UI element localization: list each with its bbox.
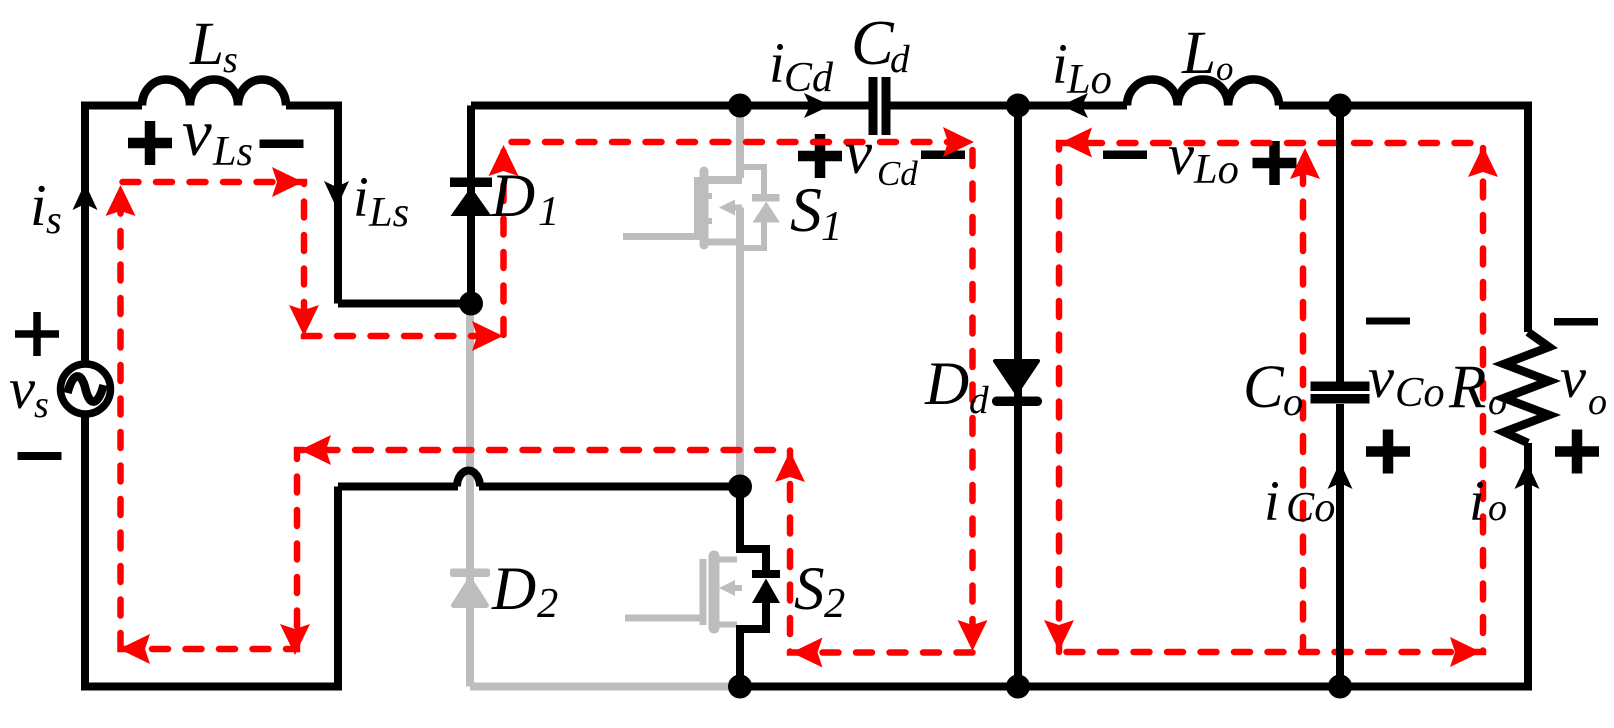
- node: S2 source junction: [728, 675, 752, 699]
- red arrowheads: [106, 127, 1499, 668]
- wire y486 left segment: [338, 483, 458, 491]
- svg-text:1: 1: [821, 203, 842, 250]
- arrow red left at iLo: [1061, 128, 1092, 158]
- arrow red left at y450: [300, 435, 331, 465]
- arrow iLo (left): [1061, 93, 1088, 118]
- svg-text:L: L: [1181, 19, 1216, 87]
- arrow red left at bottom left: [119, 634, 150, 664]
- plus vLo: [1253, 141, 1297, 185]
- svg-text:i: i: [1469, 470, 1485, 533]
- svg-text:d: d: [969, 379, 989, 422]
- source vs: [61, 364, 111, 414]
- diode D2 column wire: [470, 309, 740, 687]
- wire Ro to bottom: [740, 443, 1528, 687]
- svg-text:v: v: [845, 120, 873, 187]
- svg-text:i: i: [353, 166, 369, 229]
- svg-text:v: v: [1560, 345, 1587, 410]
- wire Ls to iLs corner: [286, 106, 338, 304]
- svg-text:D: D: [924, 350, 969, 418]
- svg-text:i: i: [1264, 470, 1280, 533]
- svg-text:C: C: [1243, 354, 1285, 421]
- wire: red loop right: [1059, 143, 1483, 652]
- inductor Lo: [1127, 79, 1279, 105]
- wire top right: [1279, 106, 1528, 333]
- svg-text:i: i: [1052, 33, 1068, 96]
- plus vCo: [1366, 430, 1410, 474]
- svg-text:s: s: [34, 384, 49, 426]
- arrow red down at x297: [280, 624, 310, 655]
- arrow red up at Co: [1290, 148, 1320, 179]
- wire y486 right segment: [479, 483, 740, 491]
- arrow iCo (up): [1328, 462, 1353, 489]
- svg-text:2: 2: [537, 580, 558, 627]
- svg-text:S: S: [794, 556, 825, 623]
- svg-text:o: o: [1488, 487, 1507, 529]
- svg-text:s: s: [223, 39, 238, 81]
- svg-text:o: o: [1488, 381, 1507, 423]
- wire: red branch Co: [1300, 168, 1307, 652]
- arrow red right at Cd: [943, 127, 974, 157]
- node: D1 anode junction: [459, 292, 483, 316]
- plus vCd: [798, 134, 842, 178]
- arrow io (up): [1515, 462, 1540, 489]
- minus vCd: [921, 151, 965, 160]
- diode Dd: [994, 361, 1040, 404]
- svg-text:1: 1: [538, 188, 559, 235]
- diode D2: [453, 571, 488, 606]
- arrow iCd (right): [804, 93, 831, 118]
- capacitor Co: [1311, 382, 1370, 404]
- svg-text:i: i: [769, 32, 785, 95]
- plus vo: [1555, 430, 1599, 474]
- svg-text:S: S: [790, 174, 822, 245]
- arrow red up at is: [106, 185, 136, 216]
- plus/minus signs: [15, 121, 1599, 474]
- plus vLs: [128, 121, 172, 165]
- wire node A horizontal: [338, 300, 471, 308]
- arrow red right at vLs end: [272, 167, 303, 197]
- svg-text:Cd: Cd: [877, 154, 918, 193]
- node: Dd bottom junction: [1006, 675, 1030, 699]
- svg-text:L: L: [189, 10, 224, 78]
- black current arrows: [73, 93, 1540, 489]
- svg-text:v: v: [182, 96, 212, 170]
- wire hop over gray: [457, 471, 480, 487]
- mosfet S1: [623, 105, 780, 484]
- svg-text:Ls: Ls: [212, 128, 253, 175]
- wire: red loop left: [121, 142, 973, 653]
- inductor Ls: [142, 80, 286, 106]
- svg-text:i: i: [30, 172, 47, 238]
- svg-text:o: o: [1283, 379, 1303, 424]
- wire top center: [471, 102, 874, 110]
- wire Co column overlay at red crossings: [1336, 125, 1344, 675]
- minus vLo: [1103, 151, 1147, 160]
- svg-text:v: v: [9, 356, 36, 421]
- arrow red down at Dd right: [1044, 620, 1074, 651]
- arrow is (up): [73, 183, 98, 210]
- minus vCo: [1366, 318, 1410, 325]
- svg-text:o: o: [1588, 381, 1607, 423]
- arrow red right at bottom right: [1450, 637, 1481, 667]
- svg-text:D: D: [491, 555, 536, 623]
- wire bottom-left: [85, 410, 338, 687]
- arrow red up at S2: [775, 451, 805, 482]
- resistor Ro: [1504, 332, 1549, 443]
- svg-text:2: 2: [824, 580, 845, 627]
- minus vs: [18, 452, 62, 460]
- node: Cd-Dd-Lo junction: [1006, 94, 1030, 118]
- arrow red up at D1: [489, 145, 519, 176]
- wire top-left: [85, 106, 142, 369]
- node: Co bottom junction: [1328, 675, 1352, 699]
- plus vs: [15, 312, 59, 356]
- svg-text:o: o: [1216, 49, 1233, 88]
- svg-text:Co: Co: [1286, 484, 1335, 531]
- arrow red right at node A: [472, 321, 503, 351]
- svg-text:Lo: Lo: [1066, 56, 1112, 103]
- svg-text:Co: Co: [1395, 369, 1445, 416]
- svg-text:C: C: [851, 7, 895, 78]
- capacitor Cd: [869, 77, 891, 135]
- arrow red up at Ro: [1468, 146, 1498, 177]
- minus vo: [1554, 318, 1598, 326]
- arrow red down at iLs: [289, 305, 319, 336]
- svg-text:D: D: [490, 162, 535, 230]
- capacitor Co column wire: [1336, 106, 1344, 687]
- arrow red down at Dd left: [958, 620, 988, 651]
- diode D1: [450, 178, 492, 217]
- svg-text:v: v: [1168, 122, 1195, 187]
- wire Cd to Lo: [885, 102, 1127, 110]
- svg-text:v: v: [1368, 345, 1395, 410]
- svg-text:Cd: Cd: [784, 55, 834, 101]
- svg-text:Lo: Lo: [1193, 146, 1239, 193]
- mosfet S2 black trunk and body diode: [740, 487, 766, 573]
- diode D1 column wire: [467, 106, 475, 304]
- arrow red left at S2: [792, 638, 823, 668]
- node: S2 drain junction: [728, 475, 752, 499]
- svg-text:R: R: [1448, 353, 1486, 421]
- arrow iLs (down): [324, 181, 349, 208]
- diode Dd column wire: [1014, 106, 1022, 687]
- svg-text:Ls: Ls: [368, 189, 409, 236]
- svg-text:s: s: [46, 197, 62, 242]
- node: S1 drain junction: [728, 94, 752, 118]
- node: Lo-Co junction: [1328, 94, 1352, 118]
- svg-text:d: d: [890, 38, 910, 81]
- mosfet S2 gray channel/gate: [625, 556, 742, 628]
- minus vLs: [260, 140, 304, 149]
- red dashed current loops: [121, 142, 1484, 653]
